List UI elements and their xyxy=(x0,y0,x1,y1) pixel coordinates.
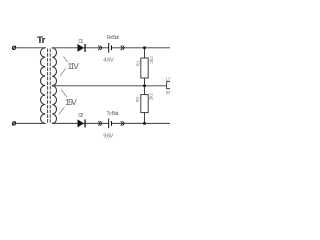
svg-text:LS: LS xyxy=(166,77,170,82)
svg-text:Tx Bat: Tx Bat xyxy=(106,111,119,117)
svg-text:8R: 8R xyxy=(166,90,170,95)
svg-text:11V: 11V xyxy=(68,61,80,71)
svg-text:9.6V: 9.6V xyxy=(103,134,113,140)
svg-text:Rx Bat: Rx Bat xyxy=(107,35,120,41)
svg-text:Tr: Tr xyxy=(37,35,46,46)
svg-text:15V: 15V xyxy=(65,97,77,107)
svg-text:R2: R2 xyxy=(135,96,140,102)
svg-text:R1: R1 xyxy=(136,60,141,66)
svg-text:4.6V: 4.6V xyxy=(103,58,114,64)
svg-text:D2: D2 xyxy=(78,113,83,119)
svg-text:2k2: 2k2 xyxy=(148,93,153,101)
svg-text:2k2: 2k2 xyxy=(149,56,154,64)
svg-text:D1: D1 xyxy=(78,39,83,45)
